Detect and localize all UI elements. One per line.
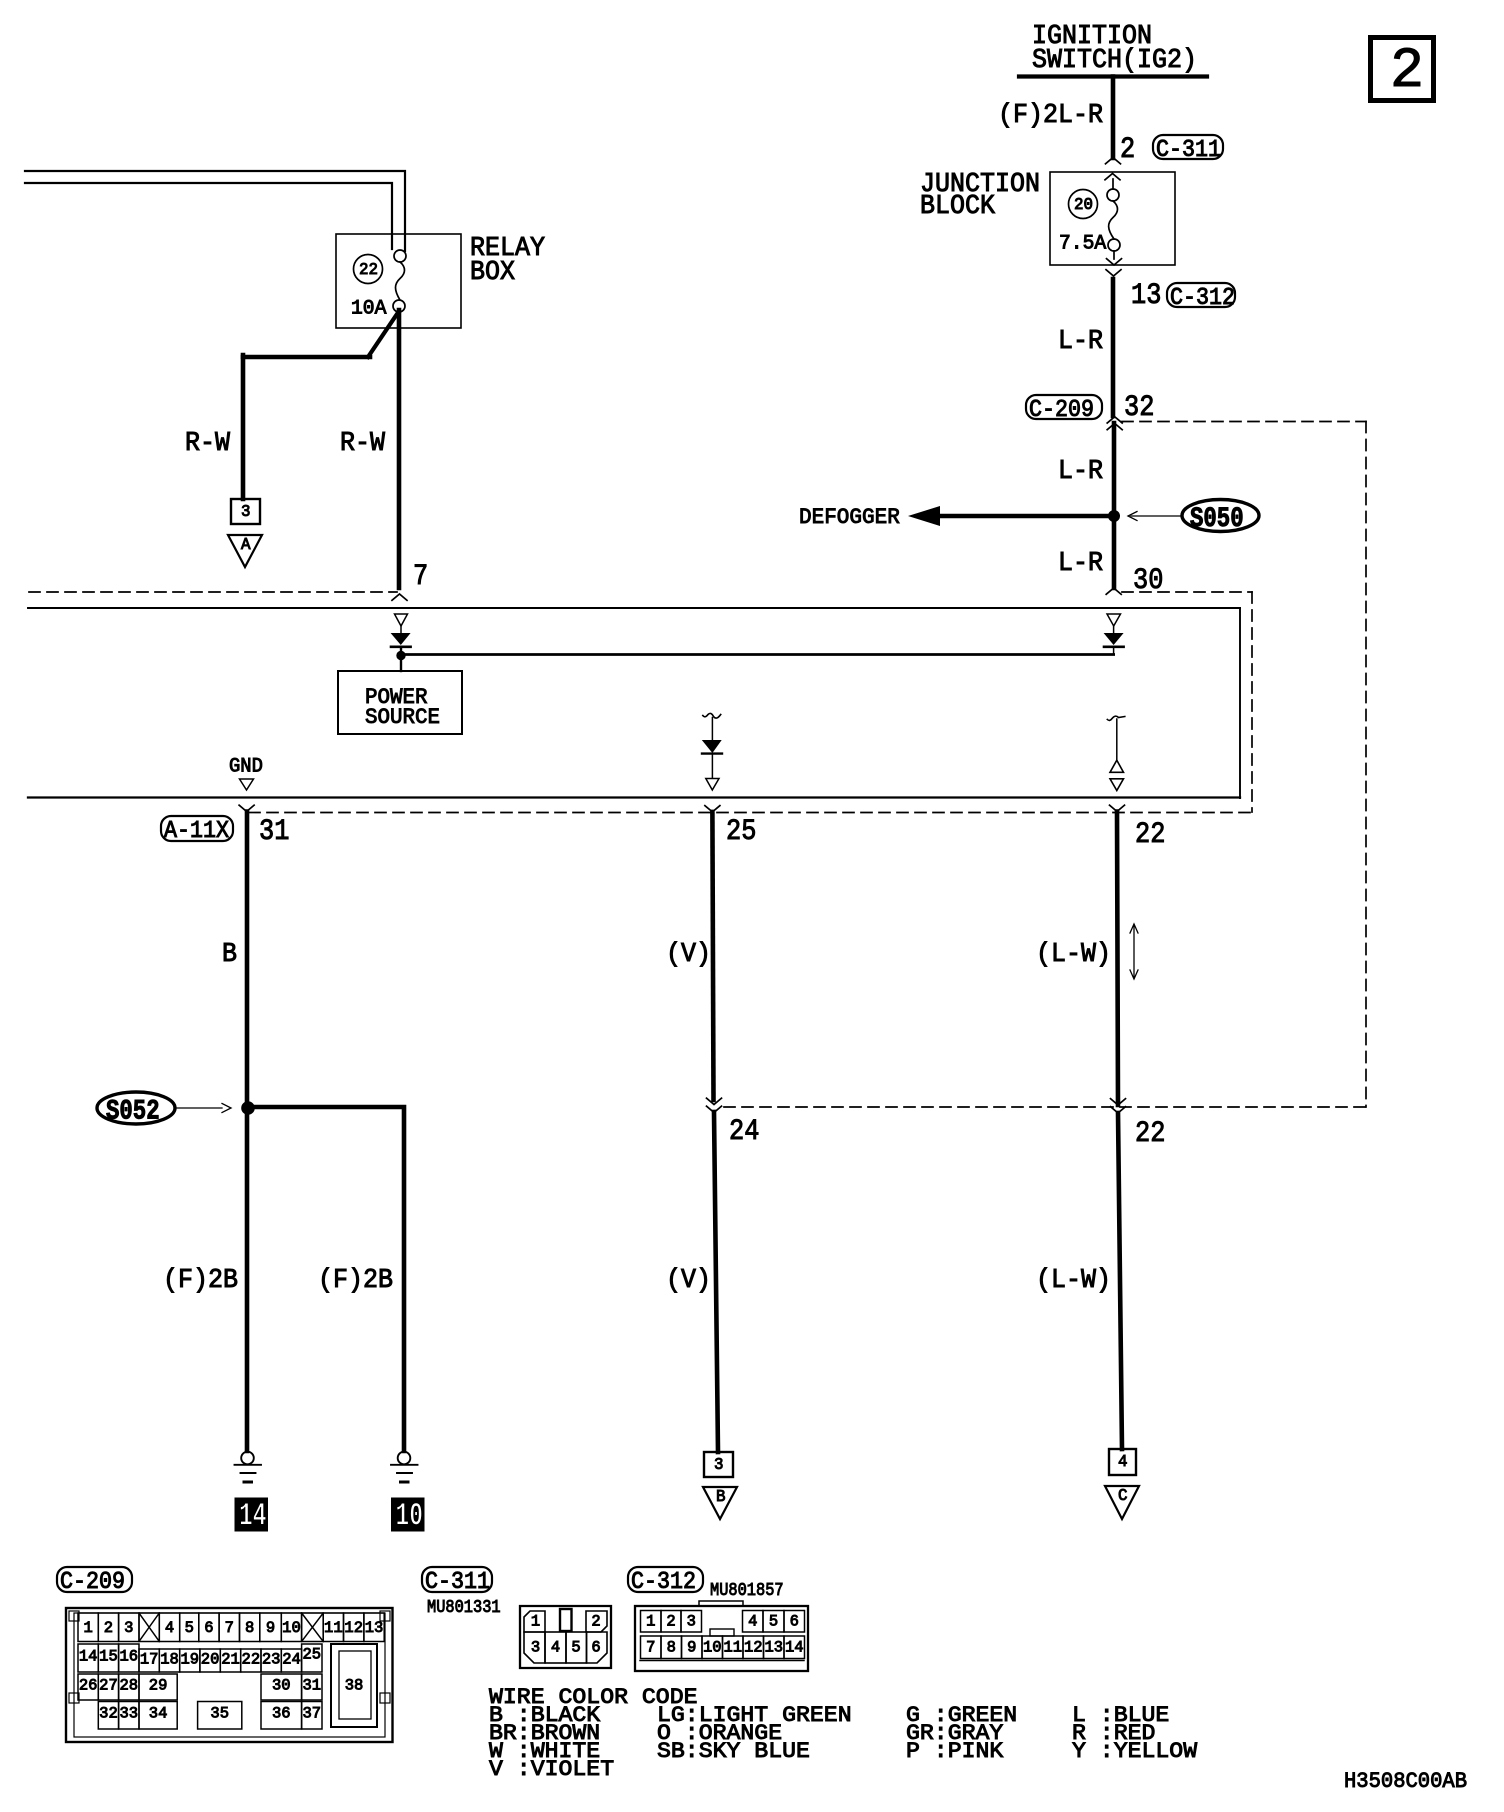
svg-text:(F)2L-R: (F)2L-R bbox=[998, 101, 1103, 131]
module solid box right edge bbox=[1239, 608, 1241, 798]
svg-text:31: 31 bbox=[259, 815, 289, 849]
svg-text:4: 4 bbox=[748, 1613, 757, 1631]
connector C-209 pin row 1 (pins 1-13) bbox=[78, 1613, 384, 1642]
ground id box 10 bbox=[392, 1497, 425, 1534]
connector chevrons at C-209 pin 22 (lower) bbox=[1111, 1099, 1126, 1113]
connector C-312 pin row 2 (pins 7-14) bbox=[641, 1636, 805, 1659]
svg-text:(F)2B: (F)2B bbox=[163, 1266, 238, 1296]
splice S050 oval bbox=[1182, 500, 1259, 535]
svg-text:9: 9 bbox=[266, 1619, 275, 1637]
svg-text:GND: GND bbox=[229, 755, 263, 778]
svg-text:9: 9 bbox=[687, 1639, 696, 1657]
wire color label L-R (2) bbox=[1058, 457, 1103, 487]
value label 10A bbox=[351, 297, 386, 320]
svg-text:7: 7 bbox=[413, 560, 428, 594]
wire color code entry BLUE bbox=[1072, 1702, 1169, 1728]
svg-text:7.5A: 7.5A bbox=[1059, 232, 1106, 255]
harness dashed route right bbox=[1365, 422, 1367, 1108]
junction block label bbox=[920, 170, 1040, 222]
connector C-312 face label capsule bbox=[628, 1567, 703, 1596]
internal bus wire to diode D2 bbox=[404, 653, 1114, 656]
svg-text:(F)2B: (F)2B bbox=[318, 1266, 393, 1296]
svg-text:2: 2 bbox=[104, 1619, 113, 1637]
GND label and symbol bbox=[229, 755, 263, 790]
internal diode D3 bbox=[702, 740, 722, 778]
pin 2 label bbox=[1120, 133, 1135, 167]
svg-text:(V): (V) bbox=[666, 940, 711, 970]
svg-text:15: 15 bbox=[99, 1648, 118, 1666]
svg-text:S052: S052 bbox=[106, 1096, 160, 1127]
drawing number H3508C00AB bbox=[1344, 1768, 1467, 1794]
wire color code entry SKY BLUE bbox=[657, 1738, 810, 1764]
svg-text:SWITCH(IG2): SWITCH(IG2) bbox=[1032, 46, 1197, 76]
connector C-209 face label capsule bbox=[57, 1567, 132, 1596]
connector C-209 face outline bbox=[66, 1608, 393, 1742]
svg-text:C-311: C-311 bbox=[1156, 137, 1221, 164]
connector chevron at module pin 22 bbox=[1110, 805, 1125, 811]
svg-text:BOX: BOX bbox=[470, 258, 515, 288]
svg-text:25: 25 bbox=[726, 815, 756, 849]
internal output squiggle (V line) bbox=[703, 713, 721, 740]
svg-text:18: 18 bbox=[160, 1651, 179, 1669]
fuse 22 terminal bottom bbox=[393, 300, 405, 312]
POWER SOURCE block bbox=[338, 671, 462, 734]
svg-text:1: 1 bbox=[646, 1613, 655, 1631]
wire V C-209 to connector 3B bbox=[714, 1112, 718, 1452]
connector chevrons into junction block bbox=[1105, 158, 1121, 180]
connector chevron at module pin 25 bbox=[705, 806, 720, 812]
pin 30 label bbox=[1133, 564, 1163, 598]
svg-text:MU801331: MU801331 bbox=[427, 1598, 501, 1618]
connector C-312 capsule bbox=[1167, 283, 1235, 312]
wire color code entry VIOLET bbox=[489, 1756, 614, 1782]
pin 22 label (lower) bbox=[1135, 1117, 1165, 1151]
svg-text:DEFOGGER: DEFOGGER bbox=[799, 504, 900, 530]
svg-text:3: 3 bbox=[714, 1455, 724, 1474]
svg-text:3: 3 bbox=[531, 1639, 540, 1657]
svg-text:22: 22 bbox=[359, 260, 378, 279]
svg-text:C-312: C-312 bbox=[1170, 285, 1235, 312]
fuse 20 element bbox=[1109, 201, 1118, 239]
svg-text:7: 7 bbox=[225, 1619, 234, 1637]
svg-text:V :VIOLET: V :VIOLET bbox=[489, 1756, 614, 1782]
svg-text:R-W: R-W bbox=[185, 429, 231, 459]
svg-text:S050: S050 bbox=[1190, 504, 1244, 535]
svg-text:SOURCE: SOURCE bbox=[365, 704, 440, 730]
wire color code legend title bbox=[489, 1684, 698, 1710]
wire L-W module pin 22 to C-209 pin 22 bbox=[1117, 812, 1118, 1106]
svg-text:32: 32 bbox=[99, 1705, 118, 1723]
value label (F)2L-R wire color bbox=[998, 101, 1103, 131]
module solid box bottom edge bbox=[28, 796, 1240, 798]
svg-text:4: 4 bbox=[1118, 1452, 1128, 1471]
wire B splice to ground 14 bbox=[245, 1108, 250, 1451]
svg-text:11: 11 bbox=[324, 1619, 343, 1637]
svg-text:2: 2 bbox=[1390, 40, 1424, 104]
wire color code entry GRAY bbox=[906, 1720, 1004, 1746]
harness dashed route bottom bbox=[724, 1106, 1366, 1108]
wire color code entry PINK bbox=[906, 1738, 1004, 1764]
svg-text:MU801857: MU801857 bbox=[710, 1581, 784, 1601]
connector C-311 pin row 2 (pins 3-6) bbox=[524, 1632, 607, 1663]
svg-text:29: 29 bbox=[149, 1677, 168, 1695]
internal output squiggle (L-W line) bbox=[1107, 716, 1125, 760]
svg-text:C-311: C-311 bbox=[425, 1569, 490, 1596]
svg-text:(V): (V) bbox=[666, 1266, 711, 1296]
svg-text:10: 10 bbox=[703, 1639, 722, 1657]
wire color label (L-W) lower bbox=[1036, 1266, 1111, 1296]
svg-text:10A: 10A bbox=[351, 297, 386, 320]
connector chevrons at C-209 pin 32 bbox=[1107, 417, 1122, 430]
wire B module pin 31 to splice S052 bbox=[245, 812, 250, 1105]
internal arrow head pin30 input bbox=[1107, 614, 1121, 626]
svg-text:31: 31 bbox=[303, 1677, 322, 1695]
svg-text:10: 10 bbox=[282, 1619, 301, 1637]
svg-text:14: 14 bbox=[785, 1639, 804, 1657]
svg-text:6: 6 bbox=[591, 1639, 600, 1657]
wire color label B bbox=[222, 940, 237, 970]
wire color label R-W (right) bbox=[340, 429, 386, 459]
connector C-209 pin 38 cavity bbox=[331, 1644, 377, 1727]
svg-text:4: 4 bbox=[551, 1639, 560, 1657]
svg-text:23: 23 bbox=[262, 1651, 281, 1669]
wire L-R junction block to C-209 pin 32 bbox=[1111, 279, 1116, 416]
wire L-R C-209 to splice S050 bbox=[1112, 423, 1117, 516]
svg-text:20: 20 bbox=[1074, 195, 1093, 214]
wire color code entry WHITE bbox=[489, 1738, 600, 1764]
wire color label L-R (1) bbox=[1058, 327, 1103, 357]
svg-text:1: 1 bbox=[84, 1619, 93, 1637]
svg-text:6: 6 bbox=[204, 1619, 213, 1637]
page number box 2 bbox=[1371, 38, 1434, 105]
connector C-312 part number MU801857 bbox=[710, 1581, 784, 1601]
arrow to DEFOGGER bbox=[799, 504, 1114, 530]
wire color code entry GREEN bbox=[906, 1702, 1017, 1728]
wire feed outer (from page 1) bbox=[25, 171, 405, 251]
svg-text:25: 25 bbox=[303, 1646, 322, 1664]
connector C-312 pin row 1 (pins 1-6) bbox=[641, 1611, 805, 1637]
svg-text:10: 10 bbox=[396, 1497, 423, 1534]
svg-text:13: 13 bbox=[1131, 279, 1161, 313]
S052 reference arrow bbox=[176, 1104, 231, 1113]
svg-text:19: 19 bbox=[181, 1651, 200, 1669]
fuse circle 22 id bbox=[354, 255, 383, 284]
svg-text:17: 17 bbox=[140, 1651, 159, 1669]
svg-text:5: 5 bbox=[185, 1619, 194, 1637]
pin 32 label bbox=[1124, 391, 1154, 425]
wire R-W diagonal from fuse 22 bbox=[368, 314, 397, 357]
svg-text:B: B bbox=[716, 1487, 726, 1506]
svg-text:L-R: L-R bbox=[1058, 457, 1103, 487]
wire color label (F)2B left bbox=[163, 1266, 238, 1296]
svg-text:B: B bbox=[222, 940, 237, 970]
bus bar ignition switch bbox=[1019, 74, 1207, 78]
pin 31 label bbox=[259, 815, 289, 849]
ground symbol 14 bbox=[235, 1452, 262, 1482]
svg-text:24: 24 bbox=[282, 1651, 301, 1669]
wire color label (L-W) upper bbox=[1036, 940, 1111, 970]
connector chevron at module pin 30 bbox=[1106, 588, 1121, 594]
svg-text:C: C bbox=[1118, 1486, 1128, 1505]
svg-text:A-11X: A-11X bbox=[164, 818, 229, 845]
connector A-11X capsule bbox=[161, 816, 233, 845]
wire R-W down to connector 3A bbox=[241, 355, 246, 499]
svg-text:P :PINK: P :PINK bbox=[906, 1738, 1004, 1764]
svg-text:21: 21 bbox=[221, 1651, 240, 1669]
wire L-R splice to module pin 30 bbox=[1112, 516, 1117, 588]
fuse 22 element bbox=[396, 262, 405, 300]
wire color label L-R (3) bbox=[1058, 549, 1103, 579]
inter-page connector box 4 bbox=[1109, 1449, 1136, 1475]
splice node S052 junction dot bbox=[242, 1102, 255, 1115]
svg-text:3: 3 bbox=[124, 1619, 133, 1637]
svg-text:SB:SKY BLUE: SB:SKY BLUE bbox=[657, 1738, 810, 1764]
svg-text:12: 12 bbox=[344, 1619, 363, 1637]
svg-text:16: 16 bbox=[120, 1648, 139, 1666]
connector chevrons at C-209 pin 24 bbox=[707, 1098, 722, 1112]
svg-text:12: 12 bbox=[744, 1639, 763, 1657]
svg-text:3: 3 bbox=[687, 1613, 696, 1631]
harness dashed route top bbox=[1122, 421, 1366, 423]
ground id box 14 bbox=[235, 1497, 268, 1534]
svg-text:14: 14 bbox=[79, 1648, 98, 1666]
svg-text:2: 2 bbox=[666, 1613, 675, 1631]
wire L-W C-209 to connector 4C bbox=[1118, 1113, 1122, 1449]
svg-text:24: 24 bbox=[729, 1115, 759, 1149]
inter-page triangle A bbox=[228, 535, 262, 567]
wire out of fuse 20 bbox=[1113, 251, 1115, 259]
svg-text:H3508C00AB: H3508C00AB bbox=[1344, 1768, 1467, 1794]
splice node S050 junction dot bbox=[1109, 511, 1120, 522]
svg-text:8: 8 bbox=[667, 1639, 676, 1657]
svg-text:(L-W): (L-W) bbox=[1036, 940, 1111, 970]
svg-text:8: 8 bbox=[245, 1619, 254, 1637]
connector chevron at module pin 31 bbox=[239, 805, 254, 811]
svg-text:33: 33 bbox=[120, 1705, 139, 1723]
module dashed boundary right bbox=[1251, 592, 1253, 812]
svg-text:35: 35 bbox=[210, 1705, 229, 1723]
fuse 22 terminal top bbox=[394, 250, 406, 262]
svg-text:22: 22 bbox=[242, 1651, 261, 1669]
svg-text:26: 26 bbox=[79, 1677, 98, 1695]
splice S052 oval bbox=[97, 1092, 175, 1127]
connector C-311 pin row 1 (pins 1,2) and key bbox=[524, 1609, 607, 1632]
internal diode D2 bbox=[1104, 626, 1124, 654]
module solid box top edge bbox=[28, 607, 1240, 609]
pin 7 label bbox=[413, 560, 428, 594]
svg-text:30: 30 bbox=[272, 1677, 291, 1695]
relay box outline bbox=[336, 234, 461, 328]
svg-text:C-312: C-312 bbox=[631, 1569, 696, 1596]
svg-text:36: 36 bbox=[272, 1705, 291, 1723]
relay box label bbox=[470, 234, 545, 288]
connector chevron at module pin 7 bbox=[392, 594, 407, 600]
pin 22 label bbox=[1135, 818, 1165, 852]
fuse 20 terminal bottom bbox=[1108, 239, 1120, 251]
svg-text:(L-W): (L-W) bbox=[1036, 1266, 1111, 1296]
node IGNITION SWITCH (IG2) label bbox=[1032, 22, 1197, 76]
svg-text:37: 37 bbox=[303, 1705, 322, 1723]
wire color code entry LIGHT GREEN bbox=[657, 1702, 852, 1728]
connector C-311 face outline bbox=[520, 1606, 611, 1668]
svg-text:11: 11 bbox=[723, 1639, 742, 1657]
svg-text:A: A bbox=[241, 535, 251, 554]
svg-text:22: 22 bbox=[1135, 818, 1165, 852]
module dashed boundary top-right bbox=[1122, 591, 1252, 593]
connector C-311 face label capsule bbox=[422, 1567, 492, 1596]
module dashed boundary top-left bbox=[29, 591, 397, 593]
internal contact triangle down bbox=[1110, 779, 1124, 791]
wire color label (V) upper bbox=[666, 940, 711, 970]
connector chevrons out of junction block bbox=[1106, 259, 1122, 276]
svg-text:4: 4 bbox=[165, 1619, 174, 1637]
inter-page connector box 3 bbox=[231, 499, 260, 524]
svg-text:22: 22 bbox=[1135, 1117, 1165, 1151]
wire into fuse 20 bbox=[1112, 179, 1114, 189]
svg-text:13: 13 bbox=[764, 1639, 783, 1657]
module dashed boundary bottom bbox=[249, 812, 1252, 814]
svg-text:28: 28 bbox=[120, 1677, 139, 1695]
wire ignition switch to C-311 pin 2 bbox=[1111, 77, 1116, 159]
wire color code entry YELLOW bbox=[1072, 1738, 1198, 1764]
wire color label (V) lower bbox=[666, 1266, 711, 1296]
svg-text:7: 7 bbox=[646, 1639, 655, 1657]
junction block box bbox=[1050, 172, 1175, 265]
wire R-W horizontal run bbox=[243, 355, 370, 360]
internal diode D1 bbox=[391, 626, 411, 671]
svg-text:L-R: L-R bbox=[1058, 327, 1103, 357]
connector C-209 pin row 2 (pins 14-25) bbox=[78, 1644, 322, 1672]
svg-text:34: 34 bbox=[149, 1705, 168, 1723]
connector C-209 pin row 4 (pins 32-37) bbox=[98, 1702, 322, 1730]
wire feed inner (from page 1) bbox=[25, 183, 392, 249]
connector C-311 capsule bbox=[1153, 135, 1223, 164]
pin 24 label bbox=[729, 1115, 759, 1149]
wire V module pin 25 to C-209 pin 24 bbox=[712, 812, 713, 1100]
svg-text:R-W: R-W bbox=[340, 429, 386, 459]
S050 reference arrow bbox=[1128, 512, 1182, 521]
internal arrow head pin7 input bbox=[395, 614, 408, 626]
connector C-209 capsule (inline) bbox=[1026, 395, 1102, 424]
connector C-312 face outline bbox=[635, 1601, 808, 1671]
svg-text:Y :YELLOW: Y :YELLOW bbox=[1072, 1738, 1198, 1764]
fuse circle 20 id bbox=[1069, 190, 1098, 219]
connector C-209 pin row 3 (pins 26-31) bbox=[78, 1674, 322, 1700]
wire color code entry ORANGE bbox=[657, 1720, 782, 1746]
wire branch splice to second ground bbox=[250, 1107, 404, 1451]
svg-text:30: 30 bbox=[1133, 564, 1163, 598]
connector C-311 part number MU801331 bbox=[427, 1598, 501, 1618]
wire continuation double arrow bbox=[1130, 924, 1138, 979]
wire color code entry RED bbox=[1072, 1720, 1155, 1746]
svg-text:BLOCK: BLOCK bbox=[920, 192, 996, 222]
svg-text:13: 13 bbox=[365, 1619, 384, 1637]
svg-text:5: 5 bbox=[769, 1613, 778, 1631]
fuse 20 terminal top bbox=[1107, 189, 1119, 201]
pin 13 label bbox=[1131, 279, 1161, 313]
svg-text:3: 3 bbox=[241, 502, 251, 521]
value label 7.5A bbox=[1059, 232, 1106, 255]
inter-page connector box 3 (B) bbox=[704, 1452, 733, 1477]
inter-page triangle B bbox=[703, 1487, 737, 1519]
internal node junction dot bbox=[397, 651, 405, 659]
svg-text:27: 27 bbox=[99, 1677, 118, 1695]
svg-text:1: 1 bbox=[531, 1613, 540, 1631]
wire color code entry BROWN bbox=[489, 1720, 600, 1746]
svg-text:2: 2 bbox=[1120, 133, 1135, 167]
wire color label R-W (left) bbox=[185, 429, 231, 459]
svg-text:C-209: C-209 bbox=[60, 1569, 125, 1596]
svg-text:5: 5 bbox=[571, 1639, 580, 1657]
svg-text:38: 38 bbox=[345, 1677, 364, 1695]
svg-text:L-R: L-R bbox=[1058, 549, 1103, 579]
wire color label (F)2B right bbox=[318, 1266, 393, 1296]
wire color code entry BLACK bbox=[489, 1702, 601, 1728]
svg-text:6: 6 bbox=[790, 1613, 799, 1631]
svg-text:C-209: C-209 bbox=[1029, 397, 1094, 424]
ground symbol 10 bbox=[391, 1452, 418, 1482]
svg-text:20: 20 bbox=[201, 1651, 220, 1669]
svg-text:14: 14 bbox=[239, 1497, 266, 1534]
inter-page triangle C bbox=[1105, 1486, 1139, 1519]
pin 25 label bbox=[726, 815, 756, 849]
wire R-W fuse 22 to module pin 7 bbox=[397, 310, 402, 588]
svg-text:2: 2 bbox=[591, 1613, 600, 1631]
svg-text:32: 32 bbox=[1124, 391, 1154, 425]
internal contact triangle up bbox=[1110, 760, 1124, 772]
internal arrow head pin25 output bbox=[706, 779, 719, 791]
